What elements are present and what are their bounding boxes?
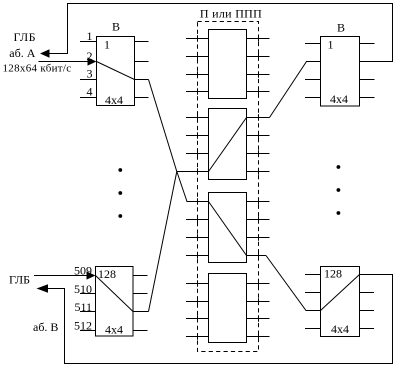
- svg-text:В: В: [337, 21, 345, 35]
- B1 input 3: [80, 79, 97, 81]
- V1 internal connection diagonal input1-output3: [96, 276, 134, 312]
- P3 (middle stage box): [209, 193, 247, 263]
- B1 output 1: [135, 41, 149, 43]
- B1 input 4: [80, 97, 97, 99]
- P2 input stubs: [186, 118, 209, 154]
- B1 internal connection diagonal input2-output3: [97, 62, 135, 80]
- svg-text:128: 128: [324, 267, 342, 281]
- switch V1 (bottom-left 4x4, trunks 509-512): [96, 267, 134, 337]
- B1 input 1: [80, 41, 97, 43]
- svg-text:512: 512: [74, 319, 92, 333]
- arrowhead to ab. A: [40, 49, 50, 57]
- P3 input stubs: [186, 220, 209, 256]
- svg-text:3: 3: [87, 67, 93, 81]
- P1 input stubs: [186, 39, 209, 92]
- V2 input 1: [305, 274, 321, 276]
- svg-text:4: 4: [87, 85, 93, 99]
- right ellipsis dots: [337, 165, 341, 215]
- svg-text:ГЛБ: ГЛБ: [14, 30, 37, 44]
- V2 output 2: [360, 292, 375, 294]
- V1 input 2 (510): [80, 293, 96, 295]
- svg-text:1: 1: [104, 38, 110, 52]
- svg-text:128: 128: [98, 267, 116, 281]
- arrowhead to ab. B: [37, 284, 49, 292]
- wire: V1 output3 up to junction node: [149, 172, 177, 312]
- wire: B1 output3 down to junction node: [149, 80, 177, 172]
- wire: P3 output4 down to V2 input 3: [266, 256, 321, 311]
- P2 internal connection diagonal input4-output1: [209, 118, 247, 172]
- P4 output stubs: [247, 284, 270, 337]
- wire: junction to P2 input 4: [177, 171, 209, 173]
- V1 output 3: [133, 311, 149, 313]
- B2 input 1: [305, 43, 321, 45]
- svg-text:4х4: 4х4: [105, 93, 123, 107]
- B2 output 1: [360, 43, 375, 45]
- arrowhead into V1 input 1: [87, 271, 96, 279]
- switch V2 (bottom-right 4x4): [321, 267, 360, 337]
- P2 output stubs: [247, 118, 270, 172]
- V2 output 4: [360, 328, 375, 330]
- P1 (middle stage box): [209, 30, 247, 99]
- svg-text:ГЛБ: ГЛБ: [9, 273, 30, 287]
- wire: bottom return bus from V2 output1 to ab.B arrow: [48, 275, 393, 364]
- V2 output 3: [360, 310, 375, 312]
- B2 input 2: [306, 61, 321, 63]
- tick marks where stubs cross right dashed boundary: [258, 35, 260, 339]
- svg-text:П или ППП: П или ППП: [200, 7, 262, 21]
- svg-text:аб. В: аб. В: [33, 320, 58, 334]
- svg-text:В: В: [112, 20, 120, 34]
- P2 (middle stage box): [209, 109, 247, 180]
- P4 input stubs: [186, 284, 209, 337]
- B2 input 4: [305, 97, 321, 99]
- left ellipsis dots: [118, 168, 122, 218]
- V1 input 3 (511): [80, 311, 96, 313]
- wire: P2 output1 up to B2 input 2: [270, 62, 307, 118]
- V2 input 4: [305, 328, 321, 330]
- svg-text:4х4: 4х4: [105, 323, 123, 337]
- svg-text:511: 511: [74, 300, 92, 314]
- wire: junction down to P3 input 1: [177, 172, 209, 202]
- svg-text:аб. А: аб. А: [9, 46, 35, 60]
- P3 output stubs: [247, 202, 270, 256]
- B2 output 4: [360, 97, 375, 99]
- svg-text:4х4: 4х4: [330, 92, 348, 106]
- B1 output 4: [135, 97, 149, 99]
- V2 input 2: [305, 292, 321, 294]
- svg-text:128х64 кбит/с: 128х64 кбит/с: [3, 63, 72, 75]
- switch B1 (top-left 4x4 concentrator): [97, 37, 135, 106]
- B1 output 2: [135, 61, 149, 63]
- P4 (middle stage box): [209, 274, 247, 343]
- B2 input 3: [305, 79, 321, 81]
- svg-text:4х4: 4х4: [331, 322, 349, 336]
- arrowhead into B1 input 2: [88, 57, 97, 65]
- B2 output 3: [360, 79, 375, 81]
- svg-text:1: 1: [87, 29, 93, 43]
- P1 output stubs: [247, 39, 270, 92]
- wire: GLB line into V1 input 1 (509): [34, 275, 88, 277]
- svg-text:510: 510: [74, 282, 92, 296]
- B1 output 3: [135, 79, 149, 81]
- svg-text:2: 2: [87, 49, 93, 63]
- svg-text:1: 1: [328, 38, 334, 52]
- V1 input 4 (512): [80, 330, 96, 332]
- wire: top return bus from B2 output 2 to ab.A arrow: [48, 4, 393, 62]
- svg-text:509: 509: [74, 264, 92, 278]
- V1 output 1: [133, 275, 148, 277]
- V1 output 4: [133, 330, 148, 332]
- wire: subscriber A line into B1 input 2: [39, 61, 89, 63]
- V1 output 2: [133, 293, 148, 295]
- V2 internal connection diagonal input3-output1: [321, 275, 360, 311]
- switch B2 (top-right 4x4): [321, 37, 360, 107]
- tick marks where stubs cross left dashed boundary: [197, 35, 199, 339]
- group P: dashed boundary of middle stage (P ili PPP): [198, 22, 259, 352]
- P3 internal connection diagonal input1-output4: [209, 202, 247, 256]
